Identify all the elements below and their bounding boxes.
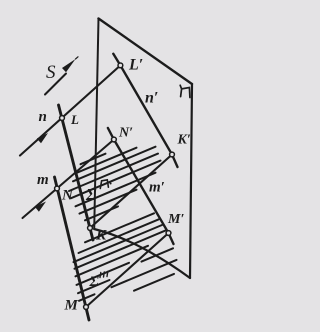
svg-text:m′: m′	[149, 180, 165, 196]
svg-text:N: N	[61, 188, 74, 204]
svg-text:M: M	[64, 298, 79, 314]
line m through N and M	[55, 177, 90, 320]
projecting ray L-L'	[20, 65, 120, 155]
svg-text:S: S	[46, 62, 56, 83]
projecting ray K-K'	[90, 155, 172, 229]
point K'	[170, 152, 175, 157]
hatch band upper Sigma2 projecting plane	[69, 147, 161, 221]
svg-text:K′: K′	[177, 133, 191, 148]
svg-text:Σ: Σ	[89, 274, 100, 290]
projecting ray N-N'	[23, 140, 114, 219]
svg-text:L: L	[70, 112, 79, 127]
svg-text:N′: N′	[118, 126, 133, 141]
plane top edge A-B	[99, 19, 193, 85]
plane left edge A-D	[94, 19, 98, 230]
direction S arrow	[45, 57, 78, 95]
line m' on plane	[108, 128, 174, 244]
svg-text:n: n	[39, 109, 47, 125]
point K	[88, 226, 93, 231]
point M'	[166, 231, 171, 236]
plane right edge B-C	[190, 84, 192, 278]
label Sigma2	[85, 180, 112, 204]
label Sigma3	[89, 272, 108, 291]
svg-text:K: K	[95, 228, 107, 244]
svg-text:L′: L′	[128, 57, 143, 74]
line n through L and K	[59, 105, 94, 240]
point M	[84, 305, 89, 310]
point N	[55, 186, 60, 191]
svg-text:M′: M′	[167, 212, 184, 227]
hatch band lower Sigma3 projecting plane	[74, 213, 177, 300]
point N'	[112, 137, 117, 142]
label Pi' of plane	[180, 85, 190, 97]
point L'	[118, 63, 123, 68]
svg-text:m: m	[37, 172, 49, 188]
svg-text:n′: n′	[145, 90, 158, 107]
point L	[60, 116, 65, 121]
svg-text:Σ: Σ	[85, 185, 97, 204]
line n' on plane	[113, 54, 177, 167]
projecting ray M-M'	[86, 233, 169, 307]
plane bottom edge D-C	[94, 229, 190, 278]
